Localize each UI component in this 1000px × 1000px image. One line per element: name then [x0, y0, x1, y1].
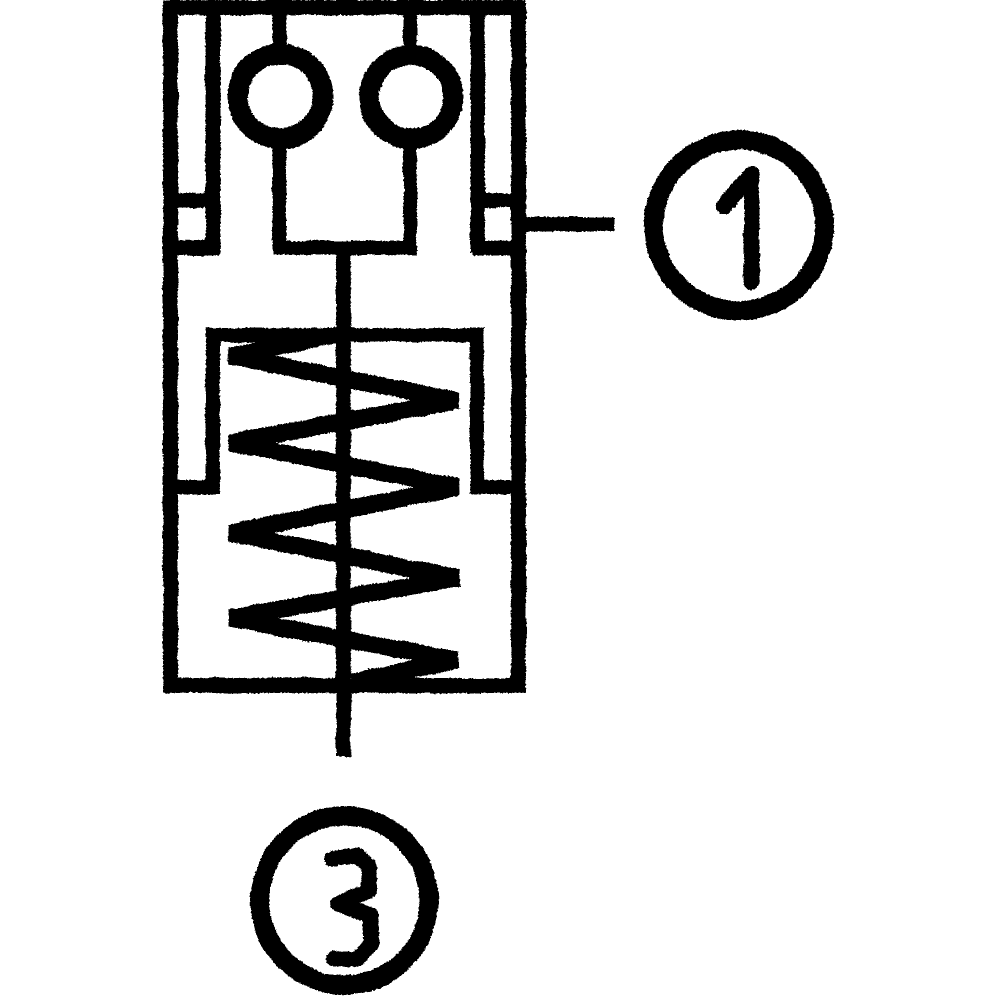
shuttle output cross line [273, 241, 417, 255]
ball check B1 circle [238, 54, 323, 139]
poppet seat bracket [172, 335, 523, 487]
valve body outer rectangle [171, 8, 519, 686]
ball check B2 lower stem [403, 142, 417, 252]
inner sleeve line left [206, 7, 221, 255]
right upper port stub [473, 194, 523, 208]
inner sleeve line right [471, 7, 485, 253]
port label circle 1 [654, 140, 825, 311]
ball check B2 circle [369, 55, 453, 139]
left lower port stub [166, 241, 219, 256]
left upper port stub [166, 194, 219, 208]
digit 1 [724, 174, 752, 282]
right lower port stub [473, 241, 523, 256]
port label circle 3 [260, 816, 429, 985]
spring [230, 334, 458, 682]
ball check B1 lower stem [273, 142, 287, 252]
ball check B1 upper stem [273, 6, 287, 52]
digit 3 [332, 856, 371, 960]
port 1 line [514, 217, 614, 231]
center pilot stem [336, 248, 351, 757]
ball check B2 upper stem [404, 6, 417, 52]
